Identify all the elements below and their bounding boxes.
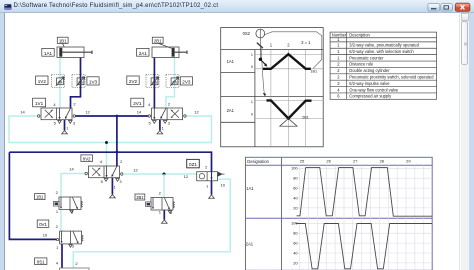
window right border xyxy=(469,13,474,270)
svg-text:14: 14 xyxy=(20,110,25,115)
junction dot on 0V2-0Z1 line xyxy=(163,173,166,176)
window left border xyxy=(0,13,4,270)
wire navy main horizontal line to 0Z1 port 2 xyxy=(9,152,211,172)
svg-text:5: 5 xyxy=(54,120,57,125)
svg-text:Pneumatic counter: Pneumatic counter xyxy=(349,55,384,60)
canvas sunken edge left xyxy=(4,13,5,270)
close button xyxy=(455,3,470,11)
label 1B1 valve xyxy=(35,194,46,200)
label 1V3 xyxy=(87,77,99,85)
compressed air supply under 2B1 port 1 xyxy=(161,220,167,223)
svg-text:2V3: 2V3 xyxy=(182,79,191,84)
wire navy main line left edge down to 0V1 port 10 xyxy=(9,152,56,239)
junction dot on cyan line xyxy=(105,141,108,144)
exhaust port 3 of 1B1 xyxy=(70,210,73,213)
svg-text:1: 1 xyxy=(251,53,253,57)
state marker arrow xyxy=(261,60,265,65)
svg-text:4: 4 xyxy=(148,102,151,107)
svg-text:4: 4 xyxy=(100,159,103,164)
svg-text:3: 3 xyxy=(168,120,171,125)
window title bar xyxy=(0,0,474,13)
svg-text:1B1: 1B1 xyxy=(59,38,67,43)
svg-text:3: 3 xyxy=(170,210,173,215)
scrollbar thumb xyxy=(461,21,468,65)
exhaust port 3 of 0V2 xyxy=(116,179,120,182)
5/2-way impulse valve 2V1 xyxy=(148,108,186,134)
svg-text:1A1: 1A1 xyxy=(44,51,53,56)
junction dot navy pilot line xyxy=(116,115,119,118)
svg-text:0: 0 xyxy=(251,65,253,69)
svg-text:3/2-way valve, pneumatically o: 3/2-way valve, pneumatically operated xyxy=(349,43,419,48)
state diagram table frame xyxy=(246,157,433,270)
svg-text:2B1: 2B1 xyxy=(302,115,309,119)
compressed air supply under 2V1 port 1 xyxy=(159,120,161,131)
svg-text:One-way flow control valve: One-way flow control valve xyxy=(349,87,399,92)
svg-text:25: 25 xyxy=(300,159,305,164)
svg-text:4: 4 xyxy=(56,260,59,265)
port labels 2V1 xyxy=(137,102,200,131)
svg-text:2: 2 xyxy=(75,261,78,266)
wire navy 0Z1 port 1 down to supply xyxy=(211,181,213,195)
wire navy 2B1 port 1 down to supply xyxy=(163,210,165,220)
wire cyan 0V2 port 12 to 0Z1 port 12 xyxy=(124,173,197,175)
svg-text:2: 2 xyxy=(168,102,171,107)
svg-text:1: 1 xyxy=(114,185,117,190)
y axis labels 1A1 xyxy=(291,166,298,211)
wire navy 1V1 port 12 to 2V1 port 14 pilot line xyxy=(76,115,149,117)
svg-text:Compressed air supply: Compressed air supply xyxy=(349,94,392,99)
svg-text:5: 5 xyxy=(148,120,151,125)
one-way flow control valve 1V2 xyxy=(52,75,65,88)
wire cyan cylinder 2A1 right port through 2V3 jog to 2V1 port 2 xyxy=(166,58,175,108)
svg-text:26: 26 xyxy=(326,159,331,164)
svg-text:2V1: 2V1 xyxy=(133,101,142,106)
svg-text:5/2-way valve, with selection: 5/2-way valve, with selection switch xyxy=(349,49,414,54)
port labels 1B1 valve xyxy=(56,190,75,215)
svg-text:Description: Description xyxy=(349,32,370,37)
3/2-way valve 0V1 pneumatically operated xyxy=(57,231,84,247)
svg-text:2B1: 2B1 xyxy=(136,195,144,200)
state diagram grid xyxy=(297,165,432,270)
wire cyan 0Z1 port 10 right down left to 0S1 port 2 xyxy=(73,179,230,268)
scrollbar up arrow xyxy=(461,13,469,21)
svg-text:5/2-way impulse valve: 5/2-way impulse valve xyxy=(349,81,390,86)
port labels 2B1 valve xyxy=(159,191,173,215)
label 0V2 xyxy=(81,155,93,162)
step diagram grid xyxy=(255,50,323,147)
exhaust port 5 of 0V2 xyxy=(104,179,108,182)
svg-text:10: 10 xyxy=(43,232,48,237)
y axis labels 2A1 xyxy=(291,221,298,266)
svg-text:2A1: 2A1 xyxy=(227,108,235,113)
wire navy 0V1 port 1 down to 0S1 port 4 xyxy=(61,244,63,268)
svg-text:1: 1 xyxy=(162,126,165,131)
3/2-way proximity switch valve 1B1 xyxy=(54,197,83,213)
svg-text:12: 12 xyxy=(133,167,138,172)
state diagram header labels xyxy=(246,159,270,246)
svg-text:Designation: Designation xyxy=(247,159,269,164)
svg-text:10: 10 xyxy=(221,183,226,188)
canvas edge right xyxy=(459,13,460,270)
svg-text:12: 12 xyxy=(85,110,90,115)
pushbutton 0S2 symbol xyxy=(256,29,265,58)
svg-text:12: 12 xyxy=(194,110,199,115)
label 2V2 xyxy=(127,76,139,84)
app icon xyxy=(4,3,18,17)
one-way flow control valve 2V2 xyxy=(146,75,159,88)
exhaust port 3 of 0V1 xyxy=(69,245,72,248)
3/2-way proximity switch valve 2B1 xyxy=(146,198,175,224)
label 0V1 xyxy=(37,220,49,227)
wire cyan 1B1 port 1 down to 0V1 port 2 xyxy=(60,210,62,232)
svg-text:1V3: 1V3 xyxy=(89,79,98,84)
svg-text:0V1: 0V1 xyxy=(39,222,47,227)
wire cyan 1B1 port 2 up and right to 0V2 port 14 xyxy=(61,174,85,198)
svg-text:12: 12 xyxy=(184,174,189,179)
svg-text:29: 29 xyxy=(406,159,411,164)
parts table description column xyxy=(349,43,434,99)
waveform trace 2A1 xyxy=(296,224,432,269)
svg-text:2A1: 2A1 xyxy=(139,51,148,56)
svg-text:0S1: 0S1 xyxy=(37,259,45,264)
port labels 0V2 xyxy=(69,159,138,189)
svg-text:1: 1 xyxy=(56,209,59,214)
state marker dot xyxy=(259,58,262,61)
compressed air supply under 1V1 port 1 xyxy=(64,120,66,131)
port labels 1V1 xyxy=(20,102,90,131)
svg-text:14: 14 xyxy=(69,167,74,172)
svg-text:1V2: 1V2 xyxy=(38,79,47,84)
limit switch marker triangle under 2A1 vertex xyxy=(280,119,297,127)
svg-text:1: 1 xyxy=(56,245,59,250)
label 1B1 marker xyxy=(57,37,68,47)
svg-text:2: 2 xyxy=(205,165,208,170)
port labels 0Z1 xyxy=(184,165,226,189)
signal line down to 2A1 start xyxy=(261,48,264,94)
svg-text:1: 1 xyxy=(66,126,69,131)
exhaust port 3 of 2B1 xyxy=(168,211,171,214)
svg-text:2V2: 2V2 xyxy=(129,79,138,84)
waveform trace 1A1 xyxy=(297,168,433,217)
step trace 1A1 xyxy=(263,54,311,69)
vertical scrollbar track xyxy=(461,13,469,270)
svg-text:1A1: 1A1 xyxy=(246,186,254,191)
svg-text:Pneumatic proximity switch, so: Pneumatic proximity switch, solenoid ope… xyxy=(349,75,434,80)
svg-text:Double acting cylinder: Double acting cylinder xyxy=(349,68,390,73)
wire navy branch down from pilot junction to 0V2 port 2 xyxy=(116,116,118,166)
exhaust port 5 of 1V1 xyxy=(58,121,62,124)
label 2V1 xyxy=(131,98,144,107)
svg-text:27: 27 xyxy=(353,159,358,164)
pneumatic counter 0Z1 xyxy=(197,172,225,199)
svg-text:1: 1 xyxy=(206,183,209,188)
label 1A1 xyxy=(42,48,54,56)
port labels 0S1 xyxy=(56,260,79,265)
one-way flow control valve 1V3 xyxy=(72,75,85,88)
exhaust port 5 of 2V1 xyxy=(153,121,157,124)
svg-text:3: 3 xyxy=(119,179,122,184)
svg-text:0Z1: 0Z1 xyxy=(189,162,197,167)
svg-text:1V1: 1V1 xyxy=(35,101,44,106)
signal line 0S2 to 1B1 xyxy=(265,32,322,69)
svg-text:4: 4 xyxy=(53,102,56,107)
svg-text:28: 28 xyxy=(380,159,385,164)
parts list table xyxy=(330,32,437,99)
wire cyan cylinder 1A1 left port to 1V2 to 1V1 port 4 xyxy=(59,58,61,108)
label 0S1 xyxy=(35,258,47,265)
compressed air supply under 0Z1 port 1 xyxy=(209,195,215,198)
svg-text:2: 2 xyxy=(159,191,162,196)
exhaust port 3 of 2V1 xyxy=(163,121,167,124)
compressed air supply under 0V2 port 1 xyxy=(111,178,113,195)
svg-text:3: 3 xyxy=(73,120,76,125)
port labels 0V1 xyxy=(43,224,75,250)
5/2-way valve 0S1 with selection switch (cut off at bottom) xyxy=(60,268,90,270)
cylinder 2A1 xyxy=(152,47,187,58)
svg-text:2: 2 xyxy=(73,102,76,107)
label 2B1 valve xyxy=(135,194,145,200)
one-way flow control valve 2V3 xyxy=(166,75,179,88)
maximize button xyxy=(441,4,453,11)
svg-text:3: 3 xyxy=(71,210,74,215)
wire cyan branch down to 2B1 port 2 xyxy=(163,174,165,198)
wire navy cylinder 2A1 left port through 2V2 to 2V1 port 4 xyxy=(153,58,155,108)
minimize button xyxy=(428,4,440,11)
svg-text:Distance rule: Distance rule xyxy=(349,62,374,67)
label 2A1 xyxy=(137,48,149,56)
svg-text:2: 2 xyxy=(56,190,59,195)
svg-text:2: 2 xyxy=(56,224,59,229)
svg-text:1: 1 xyxy=(251,100,253,104)
cylinder 1A1 xyxy=(57,47,92,58)
svg-text:2B1: 2B1 xyxy=(154,38,162,43)
step diagram labels xyxy=(227,31,318,119)
wire navy cylinder 1A1 right port through 1V3 jog to 1V1 port 2 xyxy=(71,58,81,108)
displacement-step diagram frame xyxy=(221,28,324,147)
label 2V3 xyxy=(180,77,192,85)
svg-text:5: 5 xyxy=(101,179,104,184)
svg-text:14: 14 xyxy=(137,110,142,115)
exhaust port 3 of 1V1 xyxy=(69,121,73,124)
junction dot navy main line xyxy=(116,151,119,154)
label 1V2 xyxy=(36,76,48,84)
svg-text:3 = 1: 3 = 1 xyxy=(301,40,311,45)
svg-text:0S2: 0S2 xyxy=(243,31,251,36)
label 0Z1 xyxy=(187,159,200,167)
svg-text:0: 0 xyxy=(251,112,253,116)
svg-text:0V2: 0V2 xyxy=(83,156,91,161)
svg-text:1B1: 1B1 xyxy=(310,70,317,74)
window control buttons xyxy=(420,0,474,14)
5/2-way valve 0V2 xyxy=(85,166,123,198)
wire cyan branch junction down to 0V2 port 4 xyxy=(106,143,108,167)
parts table header text xyxy=(332,32,371,37)
svg-text:1A1: 1A1 xyxy=(227,59,235,64)
parts table number column xyxy=(337,37,340,98)
label 1V1 xyxy=(33,98,46,107)
svg-text:1B1: 1B1 xyxy=(36,195,44,200)
svg-text:2: 2 xyxy=(120,159,123,164)
5/2-way impulse valve 1V1 xyxy=(38,108,76,134)
svg-text:100: 100 xyxy=(291,166,298,171)
label 2B1 marker xyxy=(152,37,171,48)
svg-text:2A1: 2A1 xyxy=(246,241,254,246)
step trace 2A1 xyxy=(267,100,312,118)
wire cyan 1V1 port 14 loop left-down-right to right side up to 2V1 port 12 xyxy=(9,116,212,143)
